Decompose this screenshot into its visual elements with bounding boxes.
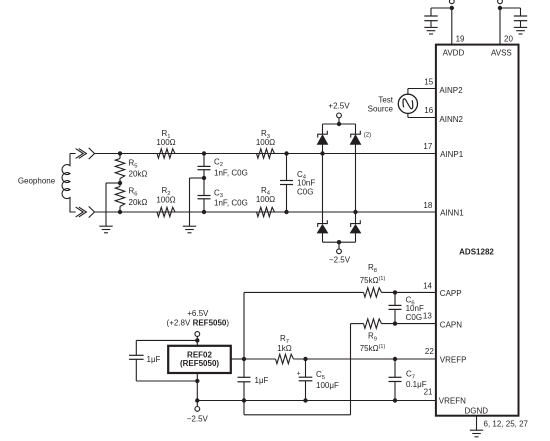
svg-text:DGND: DGND: [465, 406, 489, 415]
wire R8 to CAPP pin: [382, 291, 436, 293]
terminal AVDD supply: [449, 0, 454, 4]
terminal -2.5V reference: [195, 407, 200, 412]
label C6 10nF C0G: [406, 296, 424, 322]
wire AINP1: [95, 153, 436, 155]
svg-text:75kΩ(1): 75kΩ(1): [360, 344, 386, 353]
node -2.5V rail at C7: [393, 398, 397, 402]
svg-text:20kΩ: 20kΩ: [129, 198, 148, 207]
svg-text:R9: R9: [368, 332, 377, 343]
label R2 100: [156, 186, 175, 204]
connector plug top (double chevron): [76, 149, 87, 159]
resistor R6: [115, 183, 124, 212]
label 1uF reference cap: [255, 376, 269, 385]
svg-text:20kΩ: 20kΩ: [129, 170, 148, 179]
svg-text:1kΩ: 1kΩ: [277, 344, 291, 353]
IC U1 ADS1282 body: [436, 45, 519, 416]
terminal +2.5V clamp supply: [337, 113, 342, 118]
node C2-C3 midpoint: [202, 176, 206, 180]
label R6 20k: [129, 187, 148, 207]
capacitor C6: [389, 292, 402, 323]
wire AINP2: [408, 89, 436, 95]
label DGND pins 6 12 25 27: [484, 419, 529, 428]
svg-text:21: 21: [424, 387, 433, 396]
svg-text:(+2.8V REF5050): (+2.8V REF5050): [167, 319, 230, 328]
svg-text:C0G: C0G: [406, 313, 422, 322]
svg-text:100Ω: 100Ω: [256, 195, 275, 204]
svg-text:R5: R5: [129, 159, 138, 170]
label C2 1nF C0G: [214, 157, 248, 177]
wire clamp rail to D2: [355, 124, 357, 134]
resistor R1: [157, 149, 175, 158]
svg-text:+6.5V: +6.5V: [187, 309, 209, 318]
wire D1 to AINP1: [322, 144, 324, 153]
wire REF02 input bypass bottom: [136, 359, 197, 381]
resistor R8: [364, 288, 382, 297]
node -2.5V rail at REF02: [195, 398, 199, 402]
ground filter midpoint: [183, 226, 196, 233]
resistor R2: [157, 207, 175, 216]
node AINN1 at R6: [118, 210, 122, 214]
wire REF02 output: [231, 358, 244, 360]
test source V1: [398, 94, 417, 113]
label R1 100: [156, 129, 175, 147]
svg-text:+: +: [297, 370, 301, 377]
svg-text:ADS1282: ADS1282: [459, 247, 494, 256]
svg-text:22: 22: [425, 347, 434, 356]
diode D3 (-2.5V to AINP1): [317, 220, 327, 233]
svg-text:VREFN: VREFN: [439, 397, 466, 406]
pin 15 AINP2: [424, 78, 463, 95]
label +2.5V: [328, 102, 350, 111]
svg-text:AINN1: AINN1: [440, 209, 464, 218]
node REF02 input junction: [195, 338, 199, 342]
svg-text:100Ω: 100Ω: [156, 138, 175, 147]
wire clamp rail to D1: [322, 124, 324, 134]
label 1uF input cap: [147, 355, 161, 364]
svg-text:C3: C3: [214, 188, 223, 199]
capacitor C3: [198, 178, 211, 212]
wire AINP1 to D3 (crosses AINN1): [322, 154, 324, 224]
svg-text:100Ω: 100Ω: [156, 195, 175, 204]
svg-text:C7: C7: [406, 370, 415, 381]
wire -2.5V clamp rail: [323, 242, 356, 249]
terminal -2.5V clamp supply: [337, 249, 342, 254]
capacitor C5 100uF polarized: [297, 359, 313, 401]
wire REF02 to -2.5V terminal: [196, 401, 198, 407]
pin 13 CAPN: [423, 311, 462, 329]
wire D2 to AINN1 (crosses AINP1): [355, 144, 357, 212]
wire CAPN line: [351, 323, 436, 325]
resistor R3: [257, 149, 275, 158]
resistor R5: [115, 154, 124, 184]
voltage reference U2 REF02: [168, 346, 231, 373]
svg-text:C0G: C0G: [297, 187, 313, 196]
node AINP1 at C2: [202, 151, 206, 155]
wire D3 to -2.5V rail: [322, 233, 324, 242]
svg-text:1nF, C0G: 1nF, C0G: [214, 169, 248, 178]
ground geophone center tap: [99, 226, 112, 233]
svg-text:75kΩ(1): 75kΩ(1): [360, 276, 386, 285]
capacitor C2: [198, 154, 211, 179]
svg-text:AVSS: AVSS: [491, 48, 512, 57]
svg-text:CAPN: CAPN: [440, 320, 462, 329]
svg-text:6, 12, 25, 27: 6, 12, 25, 27: [484, 419, 529, 428]
node R5-R6 midpoint: [118, 181, 122, 185]
label diode note (2): [364, 132, 371, 138]
node +2.5V rail center: [337, 122, 341, 126]
wire AINN2: [408, 114, 436, 118]
svg-text:−2.5V: −2.5V: [187, 414, 209, 423]
svg-text:R6: R6: [129, 187, 138, 198]
svg-text:1nF, C0G: 1nF, C0G: [214, 199, 248, 208]
node AINN1 at C4: [284, 210, 288, 214]
label C4 10nF C0G: [297, 170, 315, 197]
label Test Source: [368, 96, 394, 114]
wire D4 to -2.5V rail: [355, 233, 357, 242]
pin 18 AINN1: [423, 201, 464, 218]
node VREFP at C7: [393, 357, 397, 361]
ground AVSS bypass: [514, 27, 527, 34]
label R3 100: [256, 129, 275, 147]
pin 19 AVDD: [443, 8, 465, 57]
connector jack bottom (single chevron): [89, 206, 95, 217]
label Geophone: [18, 176, 56, 185]
wire R5-R6 midpoint to ground: [106, 183, 120, 226]
connector plug bottom (double chevron): [76, 207, 87, 217]
svg-text:Test: Test: [378, 96, 393, 105]
node VREFP at C5: [303, 357, 307, 361]
resistor R7: [244, 354, 294, 363]
node AVDD bypass junction: [450, 6, 454, 10]
terminal AVSS supply: [498, 0, 503, 4]
svg-text:1μF: 1μF: [255, 376, 269, 385]
svg-text:(REF5050): (REF5050): [180, 359, 219, 368]
label C7 0.1uF: [406, 370, 427, 390]
svg-text:10nF: 10nF: [406, 304, 424, 313]
label R4 100: [256, 186, 275, 204]
svg-text:VREFP: VREFP: [440, 356, 467, 365]
node AINP1 clamp junction: [320, 151, 324, 155]
node CAPN at C6: [393, 321, 397, 325]
svg-text:16: 16: [424, 106, 433, 115]
capacitor C4: [280, 154, 293, 213]
pin 16 AINN2: [424, 106, 463, 124]
pin 20 AVSS: [491, 8, 513, 57]
label R8 75k: [360, 263, 386, 285]
label -2.5V reference: [187, 414, 209, 423]
wire AVDD to bypass capacitor: [431, 8, 452, 16]
svg-text:10nF: 10nF: [297, 178, 315, 187]
svg-text:C5: C5: [316, 370, 325, 381]
node AINP1 at C4: [284, 151, 288, 155]
ground DGND: [470, 430, 483, 437]
svg-text:AINP2: AINP2: [439, 86, 463, 95]
resistor R9: [364, 319, 382, 328]
resistor R4: [257, 207, 275, 216]
svg-text:100μF: 100μF: [316, 381, 339, 390]
svg-text:15: 15: [424, 78, 433, 87]
geophone transducer coil: [62, 154, 76, 213]
capacitor AVDD bypass: [424, 16, 437, 27]
svg-text:20: 20: [504, 34, 513, 43]
wire C2-C3 midpoint to ground: [190, 178, 205, 226]
capacitor REF02 input 1uF: [129, 355, 144, 359]
svg-text:−2.5V: −2.5V: [329, 256, 351, 265]
node AVSS bypass junction: [498, 6, 502, 10]
wire R7 to VREFP pin: [294, 358, 436, 360]
svg-text:19: 19: [456, 34, 465, 43]
node REF02 output junction: [242, 357, 246, 361]
connector jack top (single chevron): [89, 148, 95, 159]
svg-text:(2): (2): [364, 132, 371, 138]
pin DGND: [465, 406, 489, 430]
diode D2 (AINN1 to +2.5V): [350, 131, 360, 145]
ground AVDD bypass: [424, 27, 437, 34]
svg-text:C2: C2: [214, 157, 223, 168]
diode D1 (AINP1 to +2.5V): [317, 131, 327, 145]
label R9 75k: [360, 332, 386, 353]
node AINN1 clamp junction: [353, 210, 357, 214]
wire CAPN jog to -2.5V rail: [244, 324, 351, 415]
svg-text:CAPP: CAPP: [440, 289, 462, 298]
wire +6.5V terminal to REF02: [196, 336, 198, 345]
pin 22 VREFP: [425, 347, 467, 365]
pin 14 CAPP: [423, 281, 462, 298]
svg-text:AINP1: AINP1: [440, 150, 464, 159]
node CAPP at C6: [393, 290, 397, 294]
svg-text:13: 13: [423, 311, 432, 320]
svg-text:14: 14: [423, 281, 432, 290]
svg-text:R8: R8: [368, 263, 377, 274]
pin 17 AINP1: [423, 142, 463, 159]
wire +2.5V rail: [323, 118, 356, 124]
wire AINN1: [95, 211, 436, 213]
wire REF02 ground leg: [196, 373, 198, 401]
label R5 20k: [129, 159, 148, 179]
node AINN1 at C3: [202, 210, 206, 214]
svg-text:1μF: 1μF: [147, 355, 161, 364]
wire REF02 output up to R8: [244, 292, 364, 359]
label C3 1nF C0G: [214, 188, 248, 207]
capacitor C7 0.1uF: [389, 359, 402, 401]
svg-text:Source: Source: [368, 105, 394, 114]
node -2.5V rail center: [337, 240, 341, 244]
capacitor AVSS bypass: [514, 16, 527, 27]
capacitor reference 1uF: [238, 359, 251, 401]
node AINP1 at R5: [118, 151, 122, 155]
wire AVSS to bypass capacitor: [500, 8, 521, 16]
label -2.5V clamp: [329, 256, 351, 265]
node REF02 bypass return: [195, 379, 199, 383]
svg-text:18: 18: [423, 201, 432, 210]
wire REF02 input bypass top: [136, 340, 197, 355]
wire AINN1 to D4: [355, 212, 357, 224]
node -2.5V rail at 1uF: [242, 398, 246, 402]
svg-text:100Ω: 100Ω: [256, 138, 275, 147]
svg-text:AINN2: AINN2: [439, 115, 463, 124]
svg-text:AVDD: AVDD: [443, 48, 465, 57]
node -2.5V rail at C5: [303, 398, 307, 402]
svg-text:Geophone: Geophone: [18, 176, 56, 185]
pin 21 VREFN: [424, 387, 467, 405]
diode D4 (-2.5V to AINN1): [350, 220, 360, 233]
label C5 100uF: [316, 370, 339, 390]
terminal +6.5V: [195, 332, 200, 337]
svg-text:+2.5V: +2.5V: [328, 102, 350, 111]
label R7 1k: [277, 334, 291, 353]
label +6.5V supply: [167, 309, 230, 328]
wire -2.5V reference rail (VREFN): [197, 400, 436, 402]
svg-text:17: 17: [423, 142, 432, 151]
